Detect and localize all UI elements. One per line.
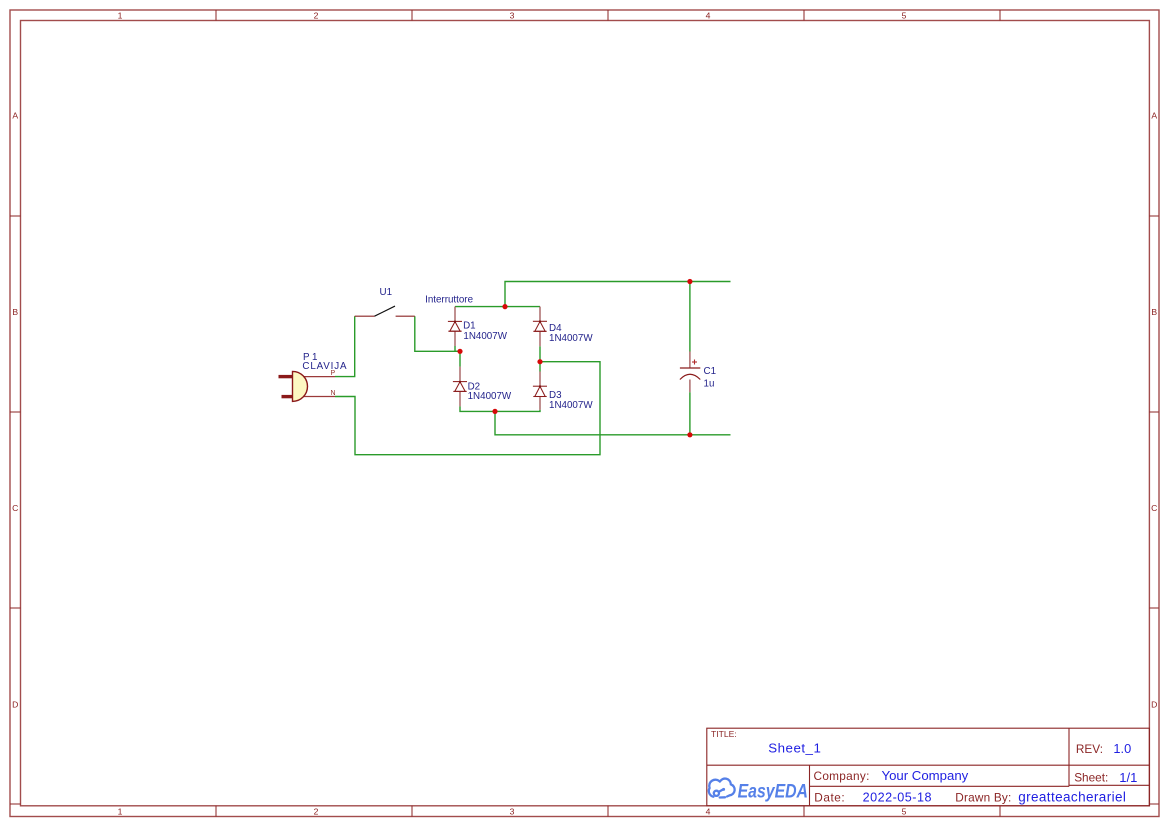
- svg-text:B: B: [12, 307, 18, 317]
- svg-text:U1: U1: [380, 287, 393, 298]
- svg-text:Company:: Company:: [814, 769, 870, 783]
- svg-text:1N4007W: 1N4007W: [468, 391, 512, 402]
- svg-text:1: 1: [118, 807, 123, 817]
- svg-text:D: D: [12, 699, 18, 709]
- svg-text:1u: 1u: [704, 379, 715, 390]
- svg-text:Interruttore: Interruttore: [425, 295, 473, 306]
- svg-text:Sheet_1: Sheet_1: [768, 740, 821, 755]
- svg-text:1.0: 1.0: [1113, 741, 1131, 756]
- svg-text:Date:: Date:: [814, 791, 845, 805]
- svg-text:Your Company: Your Company: [882, 768, 969, 783]
- svg-text:1N4007W: 1N4007W: [549, 400, 593, 411]
- svg-text:4: 4: [706, 10, 711, 20]
- svg-text:1/1: 1/1: [1119, 770, 1137, 785]
- svg-text:REV:: REV:: [1076, 742, 1103, 756]
- svg-text:1N4007W: 1N4007W: [549, 333, 593, 344]
- svg-text:B: B: [1151, 307, 1157, 317]
- svg-text:C: C: [12, 503, 18, 513]
- svg-text:2022-05-18: 2022-05-18: [863, 790, 932, 804]
- svg-text:greatteacherariel: greatteacherariel: [1018, 789, 1126, 804]
- svg-text:1: 1: [118, 10, 123, 20]
- svg-text:5: 5: [902, 10, 907, 20]
- svg-text:5: 5: [902, 807, 907, 817]
- svg-text:A: A: [12, 111, 18, 121]
- svg-text:D1: D1: [463, 321, 476, 332]
- svg-text:1N4007W: 1N4007W: [463, 331, 507, 342]
- svg-text:2: 2: [314, 807, 319, 817]
- svg-text:C1: C1: [704, 366, 717, 377]
- svg-text:N: N: [331, 390, 336, 397]
- svg-text:CLAVIJA: CLAVIJA: [302, 361, 347, 372]
- svg-text:EasyEDA: EasyEDA: [738, 781, 808, 803]
- svg-text:4: 4: [706, 807, 711, 817]
- svg-text:Drawn By:: Drawn By:: [955, 791, 1011, 805]
- svg-text:A: A: [1151, 111, 1157, 121]
- svg-text:P: P: [331, 370, 336, 377]
- svg-text:C: C: [1151, 503, 1157, 513]
- svg-text:TITLE:: TITLE:: [711, 729, 737, 739]
- svg-text:3: 3: [510, 807, 515, 817]
- svg-text:2: 2: [314, 10, 319, 20]
- svg-text:D: D: [1151, 699, 1157, 709]
- svg-text:3: 3: [510, 10, 515, 20]
- svg-text:Sheet:: Sheet:: [1074, 771, 1108, 785]
